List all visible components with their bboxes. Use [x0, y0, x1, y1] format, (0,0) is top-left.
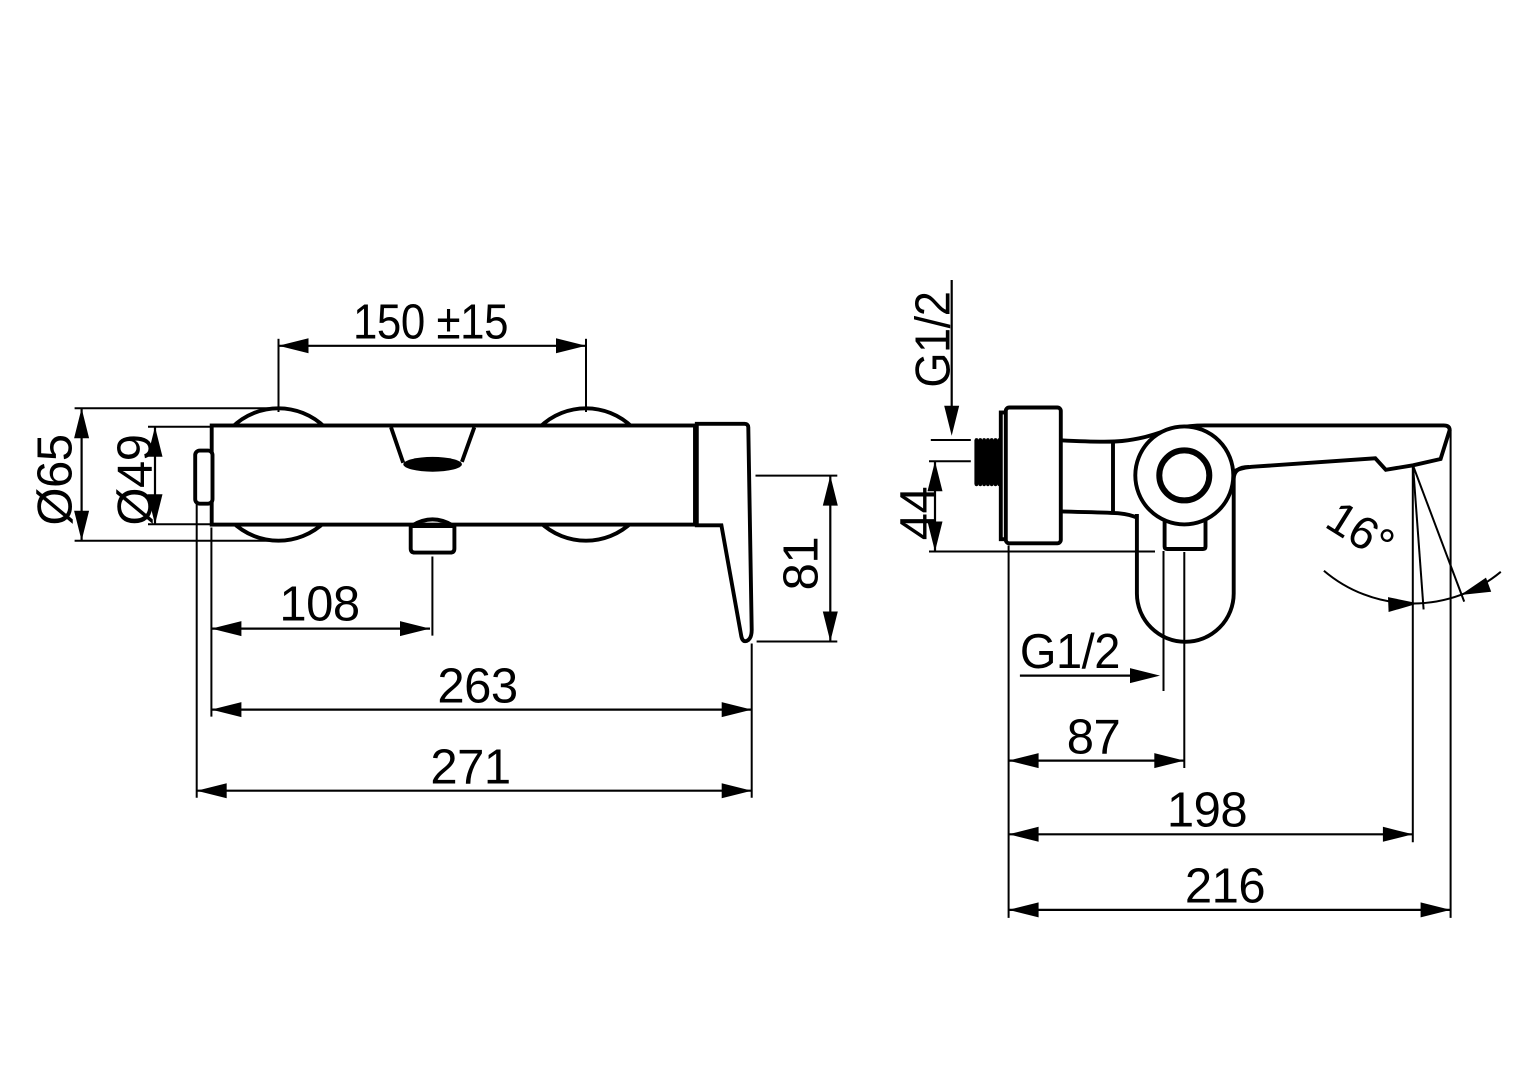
dim O65 line — [80, 408, 82, 541]
O49 ext bottom — [148, 523, 212, 525]
neck bottom edge — [1061, 511, 1138, 518]
16deg arc — [1324, 571, 1501, 604]
dim 198 line — [1009, 833, 1413, 835]
diverter dome — [412, 519, 453, 525]
ext cap left — [196, 504, 198, 798]
16deg arrow1 — [1388, 597, 1418, 612]
16deg leg2 — [1413, 466, 1464, 602]
svg-text:87: 87 — [1067, 711, 1121, 765]
thread top tick — [931, 439, 971, 441]
ext outlet center — [1183, 552, 1185, 768]
svg-text:81: 81 — [775, 537, 829, 591]
81 ext bottom — [757, 641, 838, 643]
svg-text:108: 108 — [279, 578, 359, 632]
ext body left — [210, 528, 212, 717]
G1/2 leader — [951, 280, 953, 410]
ext wall face — [1008, 546, 1010, 918]
dim 271 line — [197, 790, 752, 792]
escutcheon back plate — [1001, 413, 1007, 540]
lower pod — [1137, 467, 1249, 642]
svg-text:263: 263 — [437, 660, 517, 714]
wall thread nipple — [974, 440, 1000, 484]
ext lever end — [1450, 430, 1452, 918]
ext diverter — [431, 557, 433, 636]
SIDE VIEW — [974, 408, 1449, 642]
spout funnel ellipse — [403, 457, 462, 472]
dim 108 line — [211, 627, 430, 629]
dim 150 line — [279, 345, 587, 347]
16deg leg1 — [1413, 466, 1424, 610]
SIDE DIMENSIONS — [891, 280, 1501, 918]
diverter knob — [411, 526, 455, 553]
O49 ext top — [148, 426, 212, 428]
svg-text:G1/2: G1/2 — [1020, 625, 1120, 679]
svg-text:198: 198 — [1167, 784, 1247, 838]
escutcheon body — [1006, 408, 1061, 544]
dim 44 line — [934, 461, 936, 551]
44 ext bottom — [929, 551, 1155, 553]
O65 ext top — [75, 407, 279, 409]
dim O49 line — [154, 427, 156, 525]
neck joint line — [1111, 442, 1115, 513]
dim 87 line — [1009, 759, 1185, 761]
dim 263 line — [211, 708, 751, 710]
spout funnel right side — [462, 427, 474, 462]
81 ext top — [756, 475, 838, 477]
neck top edge — [1061, 431, 1166, 442]
dim 216 line — [1009, 909, 1451, 911]
svg-text:271: 271 — [430, 741, 510, 795]
svg-text:150 ±15: 150 ±15 — [353, 296, 508, 350]
G1/2 bottom leader — [1020, 674, 1133, 676]
lever side — [1176, 425, 1450, 471]
escutcheon circle right — [520, 408, 652, 540]
spout funnel left side — [391, 427, 403, 463]
FRONT DIMENSIONS — [29, 296, 838, 799]
faucet body — [212, 426, 695, 525]
pivot circle — [1135, 426, 1233, 524]
ext line circle1 center — [278, 339, 280, 412]
escutcheon circle left — [212, 408, 344, 540]
ext line circle2 center — [585, 339, 587, 412]
ext outlet left — [1163, 551, 1165, 691]
handle front — [697, 424, 752, 641]
O65 ext bottom — [75, 540, 279, 542]
16deg arrow2 — [1461, 578, 1492, 595]
shower outlet port — [1165, 518, 1206, 549]
ext spout tip — [1412, 467, 1414, 842]
pivot inner ring — [1159, 450, 1209, 500]
svg-text:216: 216 — [1185, 859, 1265, 913]
44 ext top — [929, 460, 971, 462]
ext handle tip — [751, 644, 753, 798]
dim 81 line — [829, 476, 831, 642]
left end cap — [195, 451, 212, 504]
FRONT VIEW — [195, 408, 752, 641]
